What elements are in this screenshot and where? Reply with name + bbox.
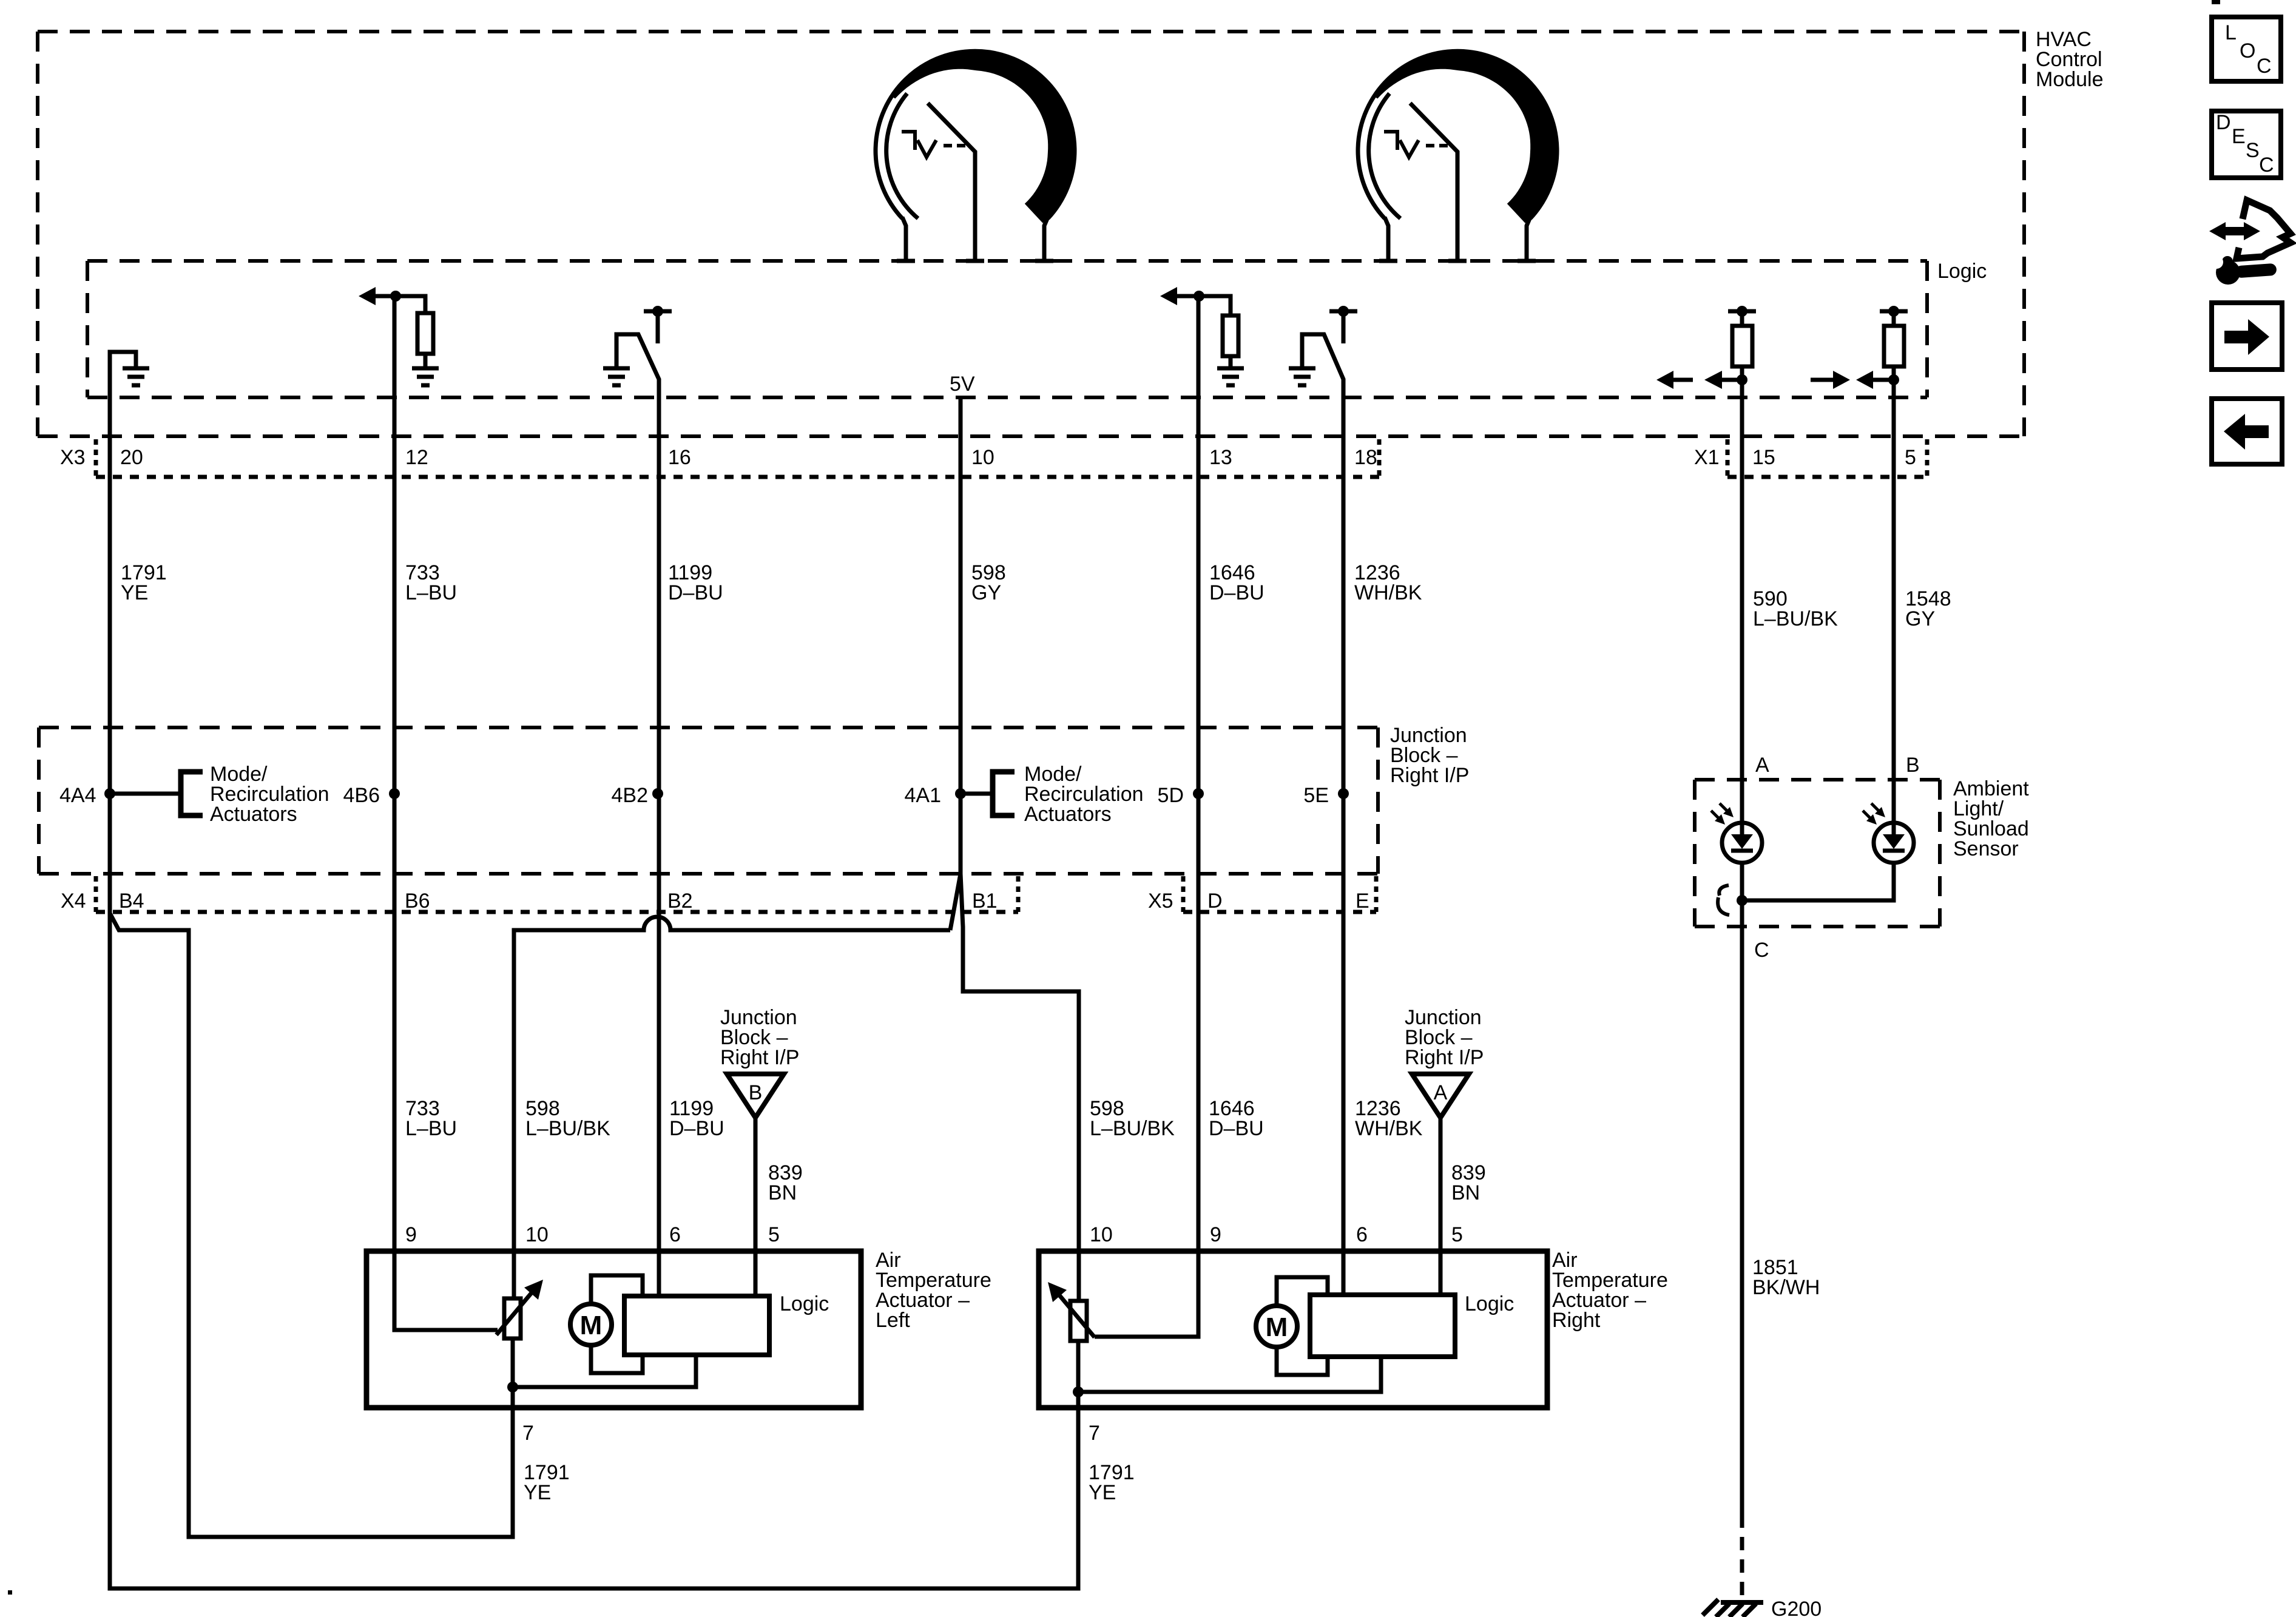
svg-text:YE: YE bbox=[1089, 1481, 1116, 1504]
svg-text:7: 7 bbox=[522, 1422, 534, 1445]
svg-text:4A4: 4A4 bbox=[59, 784, 96, 807]
svg-text:C: C bbox=[2259, 154, 2274, 177]
svg-text:C: C bbox=[2257, 55, 2272, 78]
svg-text:Right I/P: Right I/P bbox=[1390, 764, 1469, 787]
svg-text:X4: X4 bbox=[61, 890, 86, 913]
svg-text:9: 9 bbox=[405, 1223, 417, 1246]
svg-text:A: A bbox=[1755, 754, 1769, 777]
svg-text:GY: GY bbox=[1905, 607, 1935, 630]
svg-text:D–BU: D–BU bbox=[668, 581, 723, 604]
svg-text:O: O bbox=[2240, 39, 2255, 62]
svg-text:Logic: Logic bbox=[1937, 260, 1987, 283]
svg-text:Sensor: Sensor bbox=[1953, 837, 2019, 860]
svg-text:Actuators: Actuators bbox=[1024, 803, 1112, 826]
svg-text:4A1: 4A1 bbox=[905, 784, 942, 807]
svg-text:L–BU/BK: L–BU/BK bbox=[1090, 1117, 1175, 1140]
svg-text:Right: Right bbox=[1552, 1309, 1601, 1332]
svg-text:D: D bbox=[1207, 890, 1223, 913]
svg-text:Right I/P: Right I/P bbox=[1405, 1046, 1484, 1069]
svg-text:B2: B2 bbox=[667, 890, 693, 913]
svg-text:GY: GY bbox=[971, 581, 1001, 604]
svg-text:X5: X5 bbox=[1148, 890, 1173, 913]
svg-text:BN: BN bbox=[768, 1181, 797, 1204]
svg-text:B4: B4 bbox=[119, 890, 144, 913]
svg-text:Actuators: Actuators bbox=[210, 803, 297, 826]
svg-text:M: M bbox=[1266, 1312, 1288, 1342]
svg-text:5D: 5D bbox=[1158, 784, 1184, 807]
svg-text:20: 20 bbox=[120, 446, 143, 469]
svg-text:D–BU: D–BU bbox=[1209, 1117, 1264, 1140]
svg-text:Left: Left bbox=[876, 1309, 910, 1332]
svg-text:Logic: Logic bbox=[1465, 1292, 1514, 1315]
svg-text:4B2: 4B2 bbox=[612, 784, 649, 807]
svg-text:YE: YE bbox=[524, 1481, 551, 1504]
svg-text:BK/WH: BK/WH bbox=[1752, 1276, 1820, 1299]
svg-text:M: M bbox=[580, 1311, 603, 1340]
svg-text:L–BU/BK: L–BU/BK bbox=[1753, 607, 1838, 630]
svg-text:15: 15 bbox=[1752, 446, 1775, 469]
svg-text:Right I/P: Right I/P bbox=[720, 1046, 799, 1069]
svg-text:B6: B6 bbox=[405, 890, 430, 913]
svg-text:D: D bbox=[2216, 111, 2231, 134]
svg-text:A: A bbox=[1434, 1081, 1448, 1104]
svg-text:18: 18 bbox=[1354, 446, 1377, 469]
svg-text:12: 12 bbox=[405, 446, 428, 469]
svg-text:E: E bbox=[2232, 125, 2246, 148]
svg-text:BN: BN bbox=[1451, 1181, 1480, 1204]
svg-text:L–BU: L–BU bbox=[405, 581, 457, 604]
svg-text:B: B bbox=[1906, 754, 1920, 777]
svg-text:X1: X1 bbox=[1694, 446, 1720, 469]
svg-text:5V: 5V bbox=[950, 373, 975, 396]
svg-text:YE: YE bbox=[121, 581, 148, 604]
svg-text:16: 16 bbox=[668, 446, 691, 469]
svg-text:6: 6 bbox=[669, 1223, 681, 1246]
svg-text:D–BU: D–BU bbox=[669, 1117, 724, 1140]
svg-text:L–BU/BK: L–BU/BK bbox=[525, 1117, 610, 1140]
svg-text:B: B bbox=[749, 1081, 763, 1104]
svg-text:B1: B1 bbox=[972, 890, 998, 913]
svg-text:D–BU: D–BU bbox=[1209, 581, 1264, 604]
svg-text:5: 5 bbox=[768, 1223, 780, 1246]
svg-text:Logic: Logic bbox=[780, 1292, 829, 1315]
svg-text:10: 10 bbox=[1090, 1223, 1113, 1246]
svg-text:C: C bbox=[1754, 939, 1769, 962]
svg-text:10: 10 bbox=[971, 446, 994, 469]
svg-text:6: 6 bbox=[1356, 1223, 1368, 1246]
svg-text:5: 5 bbox=[1451, 1223, 1463, 1246]
svg-text:13: 13 bbox=[1209, 446, 1232, 469]
svg-text:5: 5 bbox=[1905, 446, 1916, 469]
svg-text:X3: X3 bbox=[60, 446, 86, 469]
svg-text:L–BU: L–BU bbox=[405, 1117, 457, 1140]
svg-text:9: 9 bbox=[1210, 1223, 1221, 1246]
svg-text:7: 7 bbox=[1089, 1422, 1100, 1445]
svg-text:5E: 5E bbox=[1303, 784, 1329, 807]
svg-text:Module: Module bbox=[2036, 68, 2104, 91]
svg-text:10: 10 bbox=[525, 1223, 549, 1246]
svg-text:G200: G200 bbox=[1771, 1598, 1822, 1617]
svg-text:L: L bbox=[2225, 21, 2237, 44]
svg-text:WH/BK: WH/BK bbox=[1355, 1117, 1423, 1140]
svg-text:WH/BK: WH/BK bbox=[1354, 581, 1422, 604]
svg-text:4B6: 4B6 bbox=[343, 784, 380, 807]
svg-text:S: S bbox=[2246, 139, 2260, 162]
svg-text:E: E bbox=[1356, 890, 1369, 913]
